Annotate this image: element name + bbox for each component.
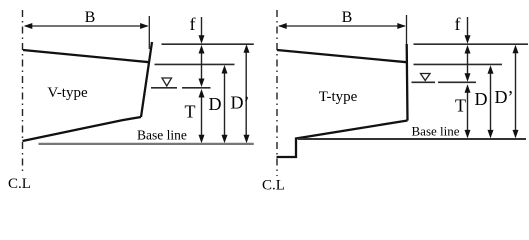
dimension B (left) line	[25, 25, 148, 27]
arrowhead T up at waterline (left)	[199, 89, 205, 98]
upper deck line 1 (left)	[162, 43, 254, 45]
svg-text:f: f	[455, 14, 461, 34]
base line (left)	[39, 143, 254, 145]
arrowhead D down (right)	[488, 130, 494, 139]
arrowhead up at line 1 (left)	[199, 45, 205, 54]
waterline triangle symbol (left)	[162, 78, 172, 86]
dimension B (right) line	[279, 25, 405, 27]
arrowhead D' up (left)	[244, 44, 250, 53]
arrowhead B right	[140, 23, 149, 29]
arrowhead D up (left)	[222, 65, 228, 74]
waterline triangle symbol (right)	[421, 74, 431, 81]
arrowhead D down (left)	[222, 135, 228, 144]
svg-text:f: f	[190, 14, 196, 34]
extension tick above deck (right)	[406, 15, 408, 46]
arrowhead T up at waterline (right)	[465, 84, 471, 93]
centerline C.L (right, dash-dot)	[276, 10, 278, 176]
dimension T stem (left)	[201, 95, 203, 137]
dimension f stem (right, above line 1)	[467, 17, 469, 37]
base line (right)	[298, 138, 526, 140]
side line V-type (slanted)	[141, 42, 152, 117]
waterline segment a (right)	[412, 81, 436, 83]
centerline C.L (left, dash-dot)	[22, 10, 24, 175]
svg-text:T: T	[455, 96, 466, 116]
arrowhead f down (right)	[465, 35, 471, 44]
freeboard stem line1 to waterline (left)	[201, 51, 203, 81]
svg-text:B: B	[342, 9, 353, 26]
svg-text:V-type: V-type	[47, 85, 88, 101]
waterline segment a (left)	[151, 87, 177, 89]
deck line T-type	[277, 50, 407, 62]
arrowhead T down at base line (right)	[465, 130, 471, 139]
arrowhead up at line 1 (right)	[465, 45, 471, 54]
svg-text:T-type: T-type	[319, 89, 358, 105]
side line T-type (vertical)	[406, 44, 409, 121]
svg-text:D’: D’	[231, 93, 250, 113]
arrowhead B left (right fig)	[278, 23, 287, 29]
svg-text:D: D	[209, 94, 222, 114]
waterline segment b (left)	[182, 87, 211, 89]
waterline segment b (right)	[438, 81, 476, 83]
arrowhead D' down (right)	[513, 130, 519, 139]
arrowhead T down at base line (left)	[199, 135, 205, 144]
upper deck line 1 (right)	[414, 43, 529, 45]
deck line V-type	[23, 50, 149, 62]
arrowhead D up (right)	[488, 65, 494, 74]
dimension D stem (left)	[224, 70, 226, 137]
arrowhead f down (left)	[199, 35, 205, 44]
freeboard stem line1 to waterline (right)	[467, 51, 469, 76]
svg-text:T: T	[185, 102, 196, 122]
dimension D' stem (left)	[245, 50, 247, 137]
svg-text:C.L: C.L	[262, 178, 285, 194]
bottom line T-type	[277, 121, 408, 158]
bottom line V-type	[23, 117, 142, 141]
dimension T stem (right)	[467, 90, 469, 132]
deck side line 2 (left)	[155, 63, 235, 65]
deck side line 2 (right)	[414, 63, 503, 65]
arrowhead B right (right fig)	[397, 23, 406, 29]
svg-text:D: D	[475, 89, 488, 109]
arrowhead B left	[24, 23, 33, 29]
arrowhead down at waterline (left)	[199, 79, 205, 88]
svg-text:B: B	[85, 9, 96, 26]
arrowhead down at waterline (right)	[465, 73, 471, 82]
dimension D' stem (right)	[515, 50, 517, 132]
svg-text:Base line: Base line	[412, 124, 460, 139]
svg-text:C.L: C.L	[8, 176, 31, 192]
arrowhead D' up (right)	[513, 45, 519, 54]
extension tick at side (left)	[148, 16, 150, 49]
dimension D stem (right)	[490, 70, 492, 132]
svg-text:Base line: Base line	[137, 128, 187, 143]
dimension f stem (left, above line 1)	[201, 17, 203, 37]
svg-text:D’: D’	[495, 87, 514, 107]
arrowhead D' down (left)	[244, 135, 250, 144]
